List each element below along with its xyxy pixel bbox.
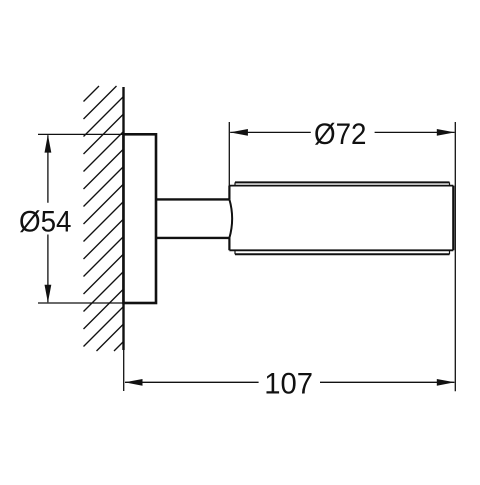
cylinder left face: [228, 186, 230, 251]
arrow 107 left: [125, 379, 143, 386]
cylinder right face: [452, 186, 454, 251]
extension line Ø54 bottom: [38, 302, 124, 304]
svg-text:Ø72: Ø72: [314, 118, 367, 151]
extension line for 107 (wall face): [123, 350, 125, 391]
svg-text:Ø54: Ø54: [19, 206, 72, 239]
dimension Ø72 line: [230, 131, 454, 133]
cylinder corner steps: [235, 182, 450, 254]
arrow 107 right: [437, 379, 455, 386]
holder cylinder body: [229, 182, 453, 254]
wall surface line: [122, 87, 124, 350]
connecting arm: [155, 199, 232, 238]
wall hatching: [84, 86, 125, 351]
cylinder outer top line: [235, 181, 450, 183]
cylinder inner bottom line: [229, 249, 453, 251]
extension line Ø72 left: [228, 122, 230, 186]
arrow Ø72 left: [230, 129, 248, 136]
cylinder inner top line: [229, 185, 453, 187]
cylinder outer bottom line: [235, 253, 450, 255]
wall plate (rosette Ø54): [124, 134, 157, 303]
arrow Ø54 down: [45, 285, 52, 303]
extension line Ø54 top: [38, 133, 124, 135]
svg-text:107: 107: [264, 367, 313, 400]
arrow Ø72 right: [437, 129, 455, 136]
arrow Ø54 up: [45, 135, 52, 153]
extension line Ø72 / 107 right: [454, 122, 456, 391]
dimension Ø54 line: [47, 135, 49, 302]
arm rounded end: [229, 199, 232, 238]
dimension 107 line: [125, 381, 454, 383]
